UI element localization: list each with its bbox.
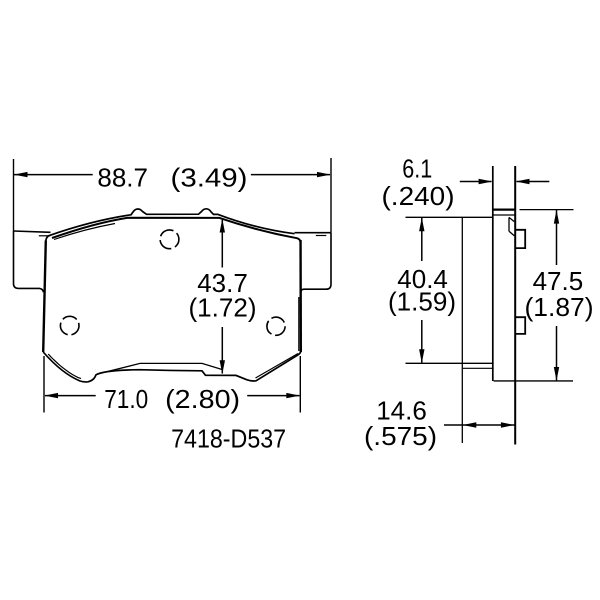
dimension 71.0 extension line left	[43, 356, 45, 413]
plate front face	[492, 166, 494, 381]
friction front face	[461, 217, 463, 443]
hole right	[267, 317, 285, 335]
extra thin chamfer line on left slope	[54, 224, 115, 240]
nib rectangle upper	[516, 230, 525, 248]
dimension 6.1 line right + arrow	[517, 181, 550, 183]
svg-text:71.0: 71.0	[104, 384, 148, 414]
arrow left 88.7	[14, 172, 28, 177]
arrow up 47.5	[554, 210, 559, 224]
svg-text:7418-D537: 7418-D537	[171, 424, 286, 454]
dimension 14.6 line	[444, 424, 515, 426]
nib rectangle lower	[516, 317, 525, 334]
dimension 88.7 extension line left	[13, 159, 15, 231]
svg-text:(3.49): (3.49)	[171, 163, 248, 193]
inner thin line right edge	[298, 297, 300, 351]
arrow right 71.0	[286, 393, 300, 398]
friction top edge + extension	[406, 216, 493, 218]
svg-text:(.575): (.575)	[364, 421, 437, 451]
svg-text:88.7: 88.7	[97, 163, 148, 193]
friction material bottom edge (plateau)	[97, 363, 223, 374]
arrow left 71.0	[44, 393, 58, 398]
friction material top edge (double line under plate edge)	[52, 218, 301, 242]
pad backing plate outline (top profile with two wear bumps)	[43, 241, 46, 353]
arrow down 40.4	[419, 349, 424, 363]
svg-text:(2.80): (2.80)	[165, 384, 240, 414]
arrow down 47.5	[554, 367, 559, 381]
dimension 71.0 extension line right	[299, 356, 301, 413]
extension line top for 47.5	[520, 209, 574, 211]
svg-text:(1.87): (1.87)	[525, 292, 594, 322]
inner double line left bottom slope	[48, 354, 81, 379]
arrow down 43.7	[220, 360, 225, 374]
dimension 47.5 line	[556, 210, 558, 381]
friction bottom edge + extension	[406, 362, 494, 364]
plate bottom edge + extension right	[494, 380, 573, 382]
plate back face	[514, 166, 516, 445]
dimension 88.7 line	[14, 174, 330, 176]
arrow up 40.4	[419, 218, 424, 232]
right ear tab	[295, 232, 332, 234]
arrow right 14.6	[501, 422, 515, 427]
arrow up 43.7	[220, 219, 225, 233]
dimension 43.7 line	[221, 220, 223, 374]
left ear tab	[14, 231, 51, 232]
dimension 6.1 line left + arrow	[460, 181, 492, 183]
clip tab top	[509, 217, 514, 235]
arrow left 14.6	[463, 422, 477, 427]
plate top edge second line	[492, 214, 516, 216]
dimension 40.4 line	[421, 218, 423, 363]
svg-text:6.1: 6.1	[402, 153, 432, 183]
svg-text:(.240): (.240)	[382, 181, 455, 211]
plate top edge	[492, 209, 516, 211]
left ear hidden dash	[39, 235, 51, 237]
svg-text:(1.59): (1.59)	[388, 287, 456, 317]
svg-text:(1.72): (1.72)	[189, 293, 257, 323]
right ear hidden dash	[316, 235, 327, 237]
pad bottom outline (outer)	[43, 351, 301, 382]
friction bottom second line	[462, 367, 493, 369]
hole left	[60, 316, 79, 335]
inner double line right bottom rise	[256, 354, 299, 379]
dimension 88.7 extension line right	[330, 158, 332, 233]
arrow right 88.7	[317, 172, 331, 177]
dimension 71.0 line	[45, 395, 300, 397]
hole top center	[160, 230, 179, 249]
